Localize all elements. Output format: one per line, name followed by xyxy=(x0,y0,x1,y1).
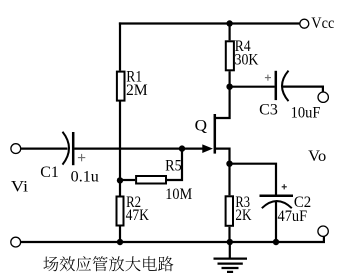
terminal input circle xyxy=(11,144,21,154)
svg-text:Vi: Vi xyxy=(11,179,29,196)
svg-text:C3: C3 xyxy=(259,102,278,119)
terminal bottom-left circle xyxy=(11,237,21,247)
svg-text:Vcc: Vcc xyxy=(311,15,334,32)
wire C2 bottom lead xyxy=(275,202,277,242)
wire source lead xyxy=(216,149,230,164)
plus polarity C1 xyxy=(78,157,85,159)
wire R4 top lead xyxy=(229,24,231,41)
svg-text:C1: C1 xyxy=(40,164,59,181)
junction dot R2 bottom rail xyxy=(117,239,123,245)
wire left vertical R1 branch xyxy=(119,22,121,70)
resistor R3 xyxy=(226,196,233,226)
wire R2 bottom to rail xyxy=(119,227,121,243)
svg-text:2K: 2K xyxy=(235,207,252,224)
svg-text:10M: 10M xyxy=(165,186,192,203)
transistor Q channel bar xyxy=(214,114,217,154)
ground stem xyxy=(229,242,231,258)
resistor R5 xyxy=(136,176,166,184)
junction dot source node xyxy=(226,161,232,167)
svg-text:Q: Q xyxy=(195,117,207,134)
svg-text:2M: 2M xyxy=(126,82,148,99)
capacitor C1 curved plate xyxy=(63,132,70,165)
junction dot C2 rail xyxy=(273,239,279,245)
ground bar 4 xyxy=(227,271,233,273)
ground bar 1 xyxy=(214,258,248,260)
wire R5 left lead xyxy=(120,179,135,181)
svg-text:10uF: 10uF xyxy=(291,104,321,121)
caption 场效应管放大电路 xyxy=(43,256,173,271)
junction dot top rail R4 xyxy=(226,20,232,26)
svg-text:47K: 47K xyxy=(126,207,150,224)
plus polarity C3 xyxy=(265,77,271,79)
capacitor C2 curved plate xyxy=(262,201,292,208)
wire input to C1 xyxy=(21,148,68,150)
wire R5 right vertical xyxy=(167,149,182,180)
terminal Vcc circle xyxy=(300,19,309,28)
wire R1 bottom to R2 top xyxy=(119,102,121,196)
svg-text:47uF: 47uF xyxy=(278,208,308,225)
junction dot ground rail xyxy=(227,239,233,245)
terminal Vo circle xyxy=(318,92,328,102)
wire gate xyxy=(74,148,204,150)
wire C3 branch xyxy=(230,86,275,88)
wire R4 bottom / drain lead xyxy=(216,71,230,118)
resistor R2 xyxy=(117,197,124,226)
ground bar 2 xyxy=(218,263,243,265)
wire bottom rail xyxy=(21,236,324,242)
gate arrow xyxy=(203,145,212,152)
wire top rail xyxy=(119,22,300,24)
svg-text:0.1u: 0.1u xyxy=(71,169,99,186)
wire C3 to output xyxy=(282,87,323,93)
capacitor C1 straight plate xyxy=(72,132,75,165)
svg-text:R5: R5 xyxy=(165,157,182,174)
capacitor C3 curved plate xyxy=(282,71,289,102)
terminal bottom-right circle xyxy=(318,226,328,236)
capacitor C3 straight plate xyxy=(275,71,278,100)
ground bar 3 xyxy=(222,267,239,269)
plus polarity C2 xyxy=(282,186,287,188)
svg-text:30K: 30K xyxy=(235,52,260,69)
wire source to R3 xyxy=(228,164,230,196)
junction dot drain C3 node xyxy=(226,84,232,90)
resistor R4 xyxy=(226,41,234,70)
junction dot divider node xyxy=(117,177,123,183)
junction dot gate R5 node xyxy=(179,145,185,151)
svg-text:Vo: Vo xyxy=(308,148,326,165)
resistor R1 xyxy=(117,72,125,101)
wire R3 bottom xyxy=(228,227,230,242)
wire source to C2 xyxy=(230,164,277,195)
capacitor C2 straight plate xyxy=(260,195,294,198)
